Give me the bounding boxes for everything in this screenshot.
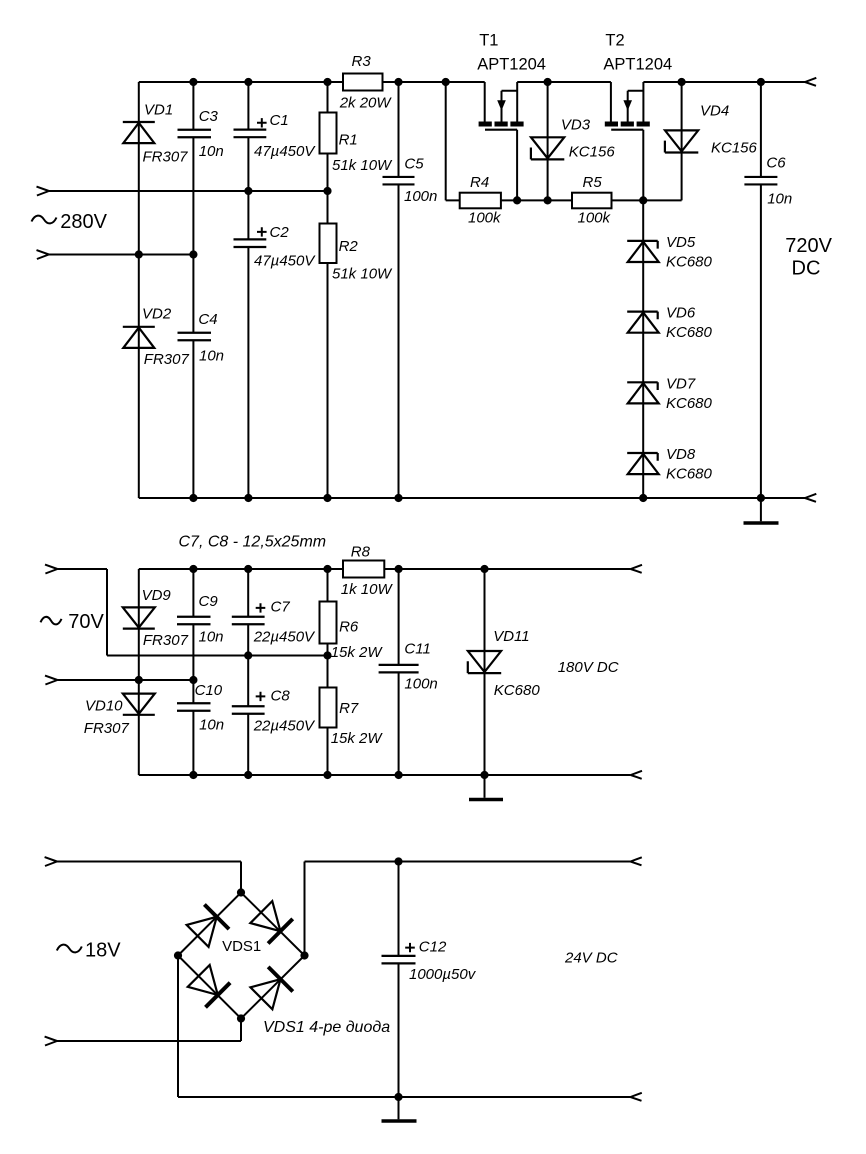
svg-text:10n: 10n	[199, 717, 224, 734]
wire R4 drop from top rail	[445, 82, 447, 200]
wire mid AC input 2	[57, 679, 193, 681]
svg-text:15k 2W: 15k 2W	[331, 644, 384, 661]
svg-text:VD3: VD3	[561, 117, 591, 134]
svg-text:C7: C7	[271, 598, 291, 615]
wire mid bottom rail	[139, 774, 631, 776]
svg-text:VDS1 4-ре диода: VDS1 4-ре диода	[263, 1019, 390, 1036]
svg-text:KC680: KC680	[666, 466, 713, 483]
wire C3/C4 column	[192, 82, 194, 498]
node dots AC1 wire	[244, 187, 331, 195]
svg-text:100k: 100k	[468, 210, 502, 227]
ground section1	[744, 498, 779, 523]
terminal arrow right bottom rail	[805, 494, 816, 502]
svg-text:KC156: KC156	[569, 144, 616, 161]
svg-text:VD7: VD7	[666, 375, 696, 392]
zener diode VD7 KC680	[627, 375, 712, 412]
resistor R7 15k 2W	[320, 688, 384, 747]
diode bridge VDS1 diamond	[178, 893, 305, 1019]
wire R1/R2 column	[327, 82, 329, 498]
node dots mid AC2 wire	[135, 676, 198, 684]
wire bottom AC input 2	[57, 1019, 241, 1042]
resistor R4 100k	[460, 174, 502, 227]
diode VD9 FR307	[123, 587, 189, 649]
svg-text:C6: C6	[766, 154, 786, 171]
svg-text:KC680: KC680	[666, 395, 713, 412]
wire bottom rail section1	[139, 497, 805, 499]
svg-text:VD5: VD5	[666, 234, 696, 251]
wire T2 gate drop	[642, 130, 644, 201]
terminal arrow right mid bottom	[631, 771, 642, 779]
terminal arrow right bot top	[631, 857, 642, 865]
wire mid top rail segment A	[139, 568, 343, 570]
svg-text:720V: 720V	[785, 235, 832, 257]
terminal arrow left 1	[37, 187, 49, 196]
node dots mid top rail	[189, 565, 488, 573]
svg-text:FR307: FR307	[143, 148, 189, 165]
svg-text:15k 2W: 15k 2W	[331, 730, 384, 747]
svg-text:R8: R8	[351, 543, 371, 560]
resistor R5 100k	[572, 174, 612, 227]
transistor T1 APT1204 mosfet	[477, 32, 546, 130]
svg-text:C3: C3	[199, 108, 219, 125]
svg-text:10n: 10n	[767, 191, 792, 208]
terminal arrow right mid top	[631, 565, 642, 573]
svg-text:1000µ50v: 1000µ50v	[409, 966, 477, 983]
svg-text:47µ450V: 47µ450V	[254, 143, 316, 160]
svg-text:KC156: KC156	[711, 140, 758, 157]
svg-text:VD8: VD8	[666, 446, 696, 463]
svg-text:24V DC: 24V DC	[564, 950, 618, 967]
wire VD5-VD8 zener chain column	[642, 200, 644, 498]
output label 720V DC	[785, 235, 832, 280]
wire AC input 2 (280V bottom)	[49, 254, 194, 256]
bridge note label VDS1 4 diodes	[263, 1019, 390, 1036]
svg-text:R3: R3	[352, 53, 372, 70]
svg-text:C2: C2	[270, 224, 290, 241]
svg-text:VDS1: VDS1	[222, 938, 261, 955]
svg-text:47µ450V: 47µ450V	[254, 252, 316, 269]
zener diode VD8 KC680	[627, 446, 712, 483]
svg-text:2k 20W: 2k 20W	[339, 94, 393, 111]
svg-text:C1: C1	[270, 112, 289, 129]
wire C9/C10 column	[192, 569, 194, 775]
bridge diode bottom-left	[186, 964, 230, 1008]
svg-text:VD10: VD10	[85, 697, 123, 714]
svg-text:VD6: VD6	[666, 305, 696, 322]
svg-text:KC680: KC680	[666, 254, 713, 271]
wire C1/C2 column	[247, 82, 249, 498]
resistor R1 51k 10W	[320, 113, 394, 174]
svg-text:R6: R6	[339, 618, 359, 635]
svg-text:100k: 100k	[578, 210, 612, 227]
capacitor C7 22u450V electrolytic	[232, 598, 316, 645]
svg-text:VD1: VD1	[144, 102, 173, 119]
node dots bridge vertices	[174, 888, 309, 1022]
diode VD10 FR307	[84, 694, 155, 737]
capacitor C5 100n	[383, 156, 438, 206]
resistor R6 15k 2W	[320, 602, 384, 661]
svg-text:C12: C12	[419, 938, 447, 955]
svg-text:C11: C11	[404, 641, 430, 658]
svg-text:22µ450V: 22µ450V	[253, 629, 316, 646]
svg-text:KC680: KC680	[666, 324, 713, 341]
svg-text:C10: C10	[195, 682, 223, 699]
terminal arrow right top rail	[805, 78, 816, 86]
svg-text:1k 10W: 1k 10W	[341, 581, 394, 598]
capacitor C2 47u450V electrolytic	[234, 224, 317, 270]
capacitor C3 10n	[178, 108, 224, 160]
resistor R3	[339, 53, 393, 111]
capacitor C8 22u450V electrolytic	[232, 687, 316, 734]
svg-text:22µ450V: 22µ450V	[253, 718, 316, 735]
svg-text:280V: 280V	[60, 211, 107, 233]
ground section3	[382, 1097, 417, 1121]
svg-text:APT1204: APT1204	[603, 55, 672, 73]
zener diode VD6 KC680	[627, 305, 712, 342]
capacitor C1 47u450V electrolytic	[234, 112, 317, 160]
capacitor C6 10n	[744, 154, 792, 207]
wire top rail segment C	[517, 81, 611, 83]
zener diode VD5 KC680	[627, 234, 712, 271]
wire DC plus rail bottom section	[305, 862, 631, 956]
wire DC minus rail bottom section	[178, 956, 631, 1098]
AC source label ~70V	[41, 611, 105, 633]
node dots mid bottom rail	[189, 771, 488, 779]
wire C12 column	[398, 862, 400, 1098]
svg-text:KC680: KC680	[494, 682, 541, 699]
svg-text:VD2: VD2	[142, 305, 172, 322]
resistor R8 1k 10W	[341, 543, 394, 598]
transistor T2 APT1204 mosfet	[603, 32, 672, 130]
output label 180V DC	[558, 659, 619, 676]
AC source label ~280V	[32, 211, 108, 233]
capacitor C10 10n	[177, 682, 224, 734]
wire VD4 column	[681, 82, 683, 200]
wire AC input 1 (280V top)	[49, 190, 328, 192]
zener diode VD3 KC156	[531, 117, 615, 161]
wire VD1/VD2 column	[138, 82, 140, 498]
wire mid AC input 1 (70V)	[57, 569, 327, 656]
wire C11 column	[398, 569, 400, 775]
capacitor C11 100n	[379, 641, 438, 693]
svg-text:T2: T2	[605, 32, 624, 50]
terminal arrow left bot 1	[45, 857, 57, 866]
svg-text:C5: C5	[404, 156, 424, 173]
wire T1 gate drop	[516, 130, 518, 201]
svg-text:FR307: FR307	[144, 351, 190, 368]
svg-text:FR307: FR307	[84, 720, 130, 737]
svg-text:VD9: VD9	[142, 587, 172, 604]
wire C6 column	[760, 82, 762, 498]
svg-text:C4: C4	[198, 311, 217, 328]
svg-text:100n: 100n	[404, 675, 437, 692]
node dots gate bus	[513, 196, 647, 204]
wire mid top rail segment B	[384, 568, 630, 570]
svg-text:18V: 18V	[85, 940, 121, 962]
svg-text:R4: R4	[470, 174, 489, 191]
wire top rail segment D	[643, 81, 805, 83]
node dots section1 bottom rail	[189, 494, 765, 502]
capacitor C12 1000u50v electrolytic	[382, 938, 477, 983]
terminal arrow left mid 2	[45, 676, 57, 685]
svg-text:10n: 10n	[199, 143, 224, 160]
svg-text:T1: T1	[479, 32, 498, 50]
AC source label ~18V	[57, 940, 121, 962]
svg-text:R2: R2	[339, 238, 359, 255]
node dots section1 top rail	[189, 78, 765, 86]
wire R6/R7 column	[327, 569, 329, 775]
terminal arrow left mid 1	[45, 565, 57, 574]
wire C5 column	[398, 82, 400, 498]
bridge diode top-left	[185, 904, 229, 948]
svg-text:100n: 100n	[404, 188, 437, 205]
svg-text:FR307: FR307	[143, 632, 189, 649]
node dots C12	[394, 857, 402, 1101]
svg-text:DC: DC	[792, 258, 821, 280]
wire VD11 column	[484, 569, 486, 775]
zener diode VD11 KC680	[468, 628, 541, 699]
svg-text:70V: 70V	[68, 611, 104, 633]
terminal arrow right bot bottom	[631, 1093, 642, 1101]
bridge diode top-right	[249, 900, 293, 944]
wire top rail segment B	[383, 81, 485, 83]
wire top rail segment A	[139, 81, 343, 83]
terminal arrow left 2	[37, 250, 49, 259]
node dots mid AC1 wire	[244, 651, 332, 659]
svg-text:51k 10W: 51k 10W	[332, 266, 393, 283]
resistor R2 51k 10W	[320, 224, 394, 283]
wire VD9/VD10 column	[138, 569, 140, 775]
terminal arrow left bot 2	[45, 1037, 57, 1046]
svg-text:R1: R1	[339, 132, 358, 149]
svg-text:VD4: VD4	[700, 102, 729, 119]
svg-text:APT1204: APT1204	[477, 55, 546, 73]
svg-text:R5: R5	[583, 174, 603, 191]
capacitor C4 10n	[178, 311, 225, 364]
node dots AC2 wire	[135, 250, 198, 258]
svg-text:10n: 10n	[199, 629, 224, 646]
diode VD1 FR307	[123, 102, 188, 166]
svg-text:C9: C9	[199, 593, 219, 610]
svg-text:C7, C8 - 12,5x25mm: C7, C8 - 12,5x25mm	[179, 534, 327, 551]
wire bottom AC input 1 (18V)	[57, 862, 241, 893]
diode VD2 FR307	[123, 305, 190, 368]
svg-text:C8: C8	[271, 687, 291, 704]
svg-text:VD11: VD11	[493, 628, 529, 645]
svg-text:180V DC: 180V DC	[558, 659, 619, 676]
svg-text:51k 10W: 51k 10W	[332, 157, 393, 174]
zener diode VD4 KC156	[665, 102, 758, 156]
wire VD3 column	[547, 82, 549, 200]
output label 24V DC	[564, 950, 618, 967]
wire C7/C8 column	[247, 569, 249, 775]
svg-text:10n: 10n	[199, 347, 224, 364]
bridge diode bottom-right	[249, 967, 293, 1011]
ground section2	[469, 775, 503, 800]
note label C7, C8 size	[179, 534, 327, 551]
wire R4/R5 gate bus	[446, 199, 682, 201]
capacitor C9 10n	[177, 593, 224, 646]
svg-text:R7: R7	[339, 700, 359, 717]
